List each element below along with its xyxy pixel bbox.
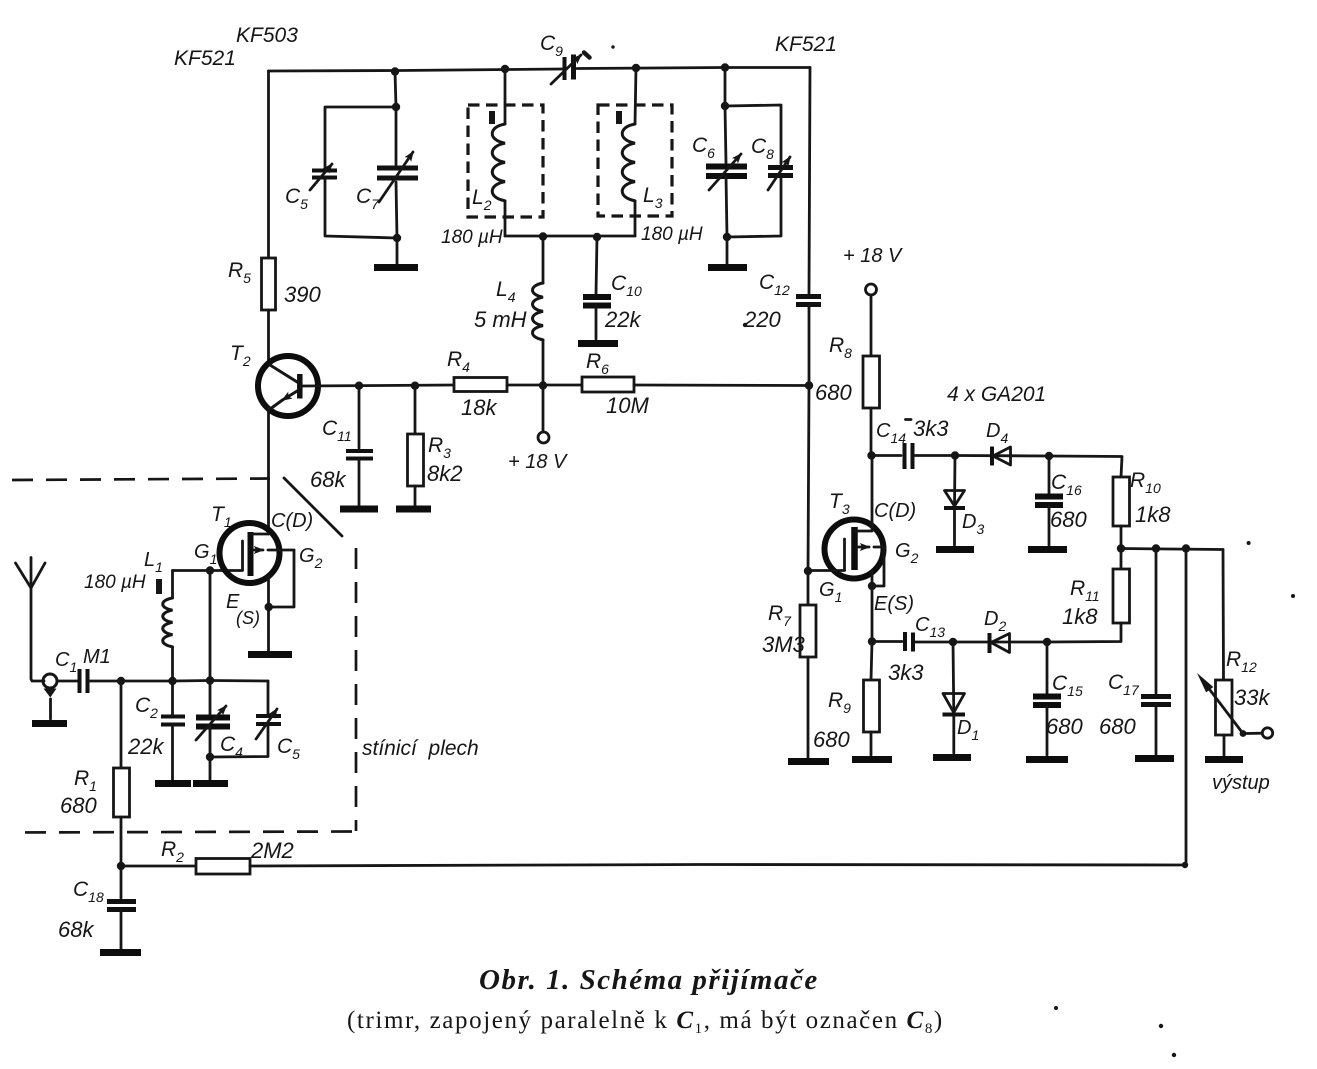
node junction main wire / right column — [805, 381, 813, 389]
svg-text:+ 18 V: + 18 V — [843, 245, 903, 267]
wire T1 G2 loop — [269, 550, 294, 607]
wire T3 source column — [871, 571, 874, 642]
capacitor C9 trimmer plates — [563, 57, 567, 80]
capacitor C8 plates — [768, 165, 793, 170]
inductor L2 core mark — [489, 111, 495, 124]
ink speck 4 — [1054, 1006, 1058, 1010]
resistor R4 — [454, 378, 507, 392]
wire top supply rail (left of C9) — [269, 69, 563, 71]
node junction T3 source / G2 — [868, 582, 876, 590]
svg-text:E(S): E(S) — [874, 593, 914, 615]
wire right column top (rail corner to C12) — [809, 68, 810, 295]
node junction top rail / C7 branch — [391, 67, 399, 75]
resistor R10 — [1113, 477, 1130, 526]
inductor L1 core mark — [156, 579, 162, 594]
ground below R7 — [788, 758, 829, 765]
svg-text:220: 220 — [743, 307, 781, 332]
svg-text:22k: 22k — [604, 307, 641, 332]
svg-text:3k3: 3k3 — [913, 416, 949, 441]
node junction R10/R11 — [1117, 544, 1125, 552]
terminal M1 input — [43, 674, 57, 688]
inductor L1 — [171, 571, 174, 599]
wire C7 branch upper — [395, 72, 396, 166]
wire C7 to ground — [396, 182, 397, 264]
resistor R7 — [807, 571, 810, 605]
wire T3 source arrow — [857, 546, 869, 549]
wire T1 gate lead — [173, 569, 243, 572]
wire R6 to right column — [634, 384, 809, 387]
svg-text:680: 680 — [1099, 714, 1136, 739]
node junction R1 / input — [117, 677, 125, 685]
svg-text:680: 680 — [1046, 714, 1083, 739]
node junction R1 / R2 / C18 — [117, 862, 125, 870]
wire bottom rail (R2 to feedback column) — [250, 865, 1186, 867]
resistor R6 — [582, 377, 634, 392]
inductor L2 shield dashed box — [468, 105, 543, 217]
wire T3 G2 loop — [872, 547, 884, 586]
wire feedback column (junction row to bottom rail) — [1185, 549, 1188, 866]
resistor R8 — [863, 356, 880, 408]
capacitor C15 — [1046, 642, 1049, 693]
wire T3 gate lead — [808, 569, 845, 572]
ground below T1 source — [248, 651, 292, 658]
transistor T3 — [825, 520, 884, 579]
svg-text:680: 680 — [1050, 507, 1087, 532]
node junction L4 / tank bottom — [539, 232, 547, 240]
svg-text:+ 18 V: + 18 V — [508, 451, 568, 473]
wire T2 emitter down to T1 drain — [267, 408, 270, 534]
svg-text:3k3: 3k3 — [888, 660, 924, 685]
capacitor C12 — [796, 294, 821, 299]
ground below C4 — [193, 780, 228, 787]
ground below C6 — [708, 264, 747, 271]
wire to +18V terminal (mid) — [542, 386, 545, 432]
capacitor C7 arrow — [379, 152, 413, 202]
capacitor C13 — [872, 640, 902, 643]
wire T1 source arrow — [253, 549, 263, 552]
resistor R9 — [871, 642, 872, 681]
svg-text:(S): (S) — [236, 608, 260, 628]
svg-text:KF521: KF521 — [775, 33, 837, 56]
capacitor C2 — [171, 681, 174, 714]
antenna — [30, 558, 33, 589]
node junction R3 — [411, 382, 419, 390]
node junction C6 bottom — [723, 233, 731, 241]
node junction feedback column — [1182, 544, 1190, 552]
resistor R1 — [120, 681, 123, 768]
inductor L3 — [635, 68, 636, 124]
svg-text:3M3: 3M3 — [762, 632, 806, 657]
node junction C4 branch — [206, 676, 214, 684]
potentiometer R12 wiper arrow — [1210, 690, 1243, 734]
inductor L3 shield dashed box — [598, 105, 672, 216]
svg-text:390: 390 — [284, 282, 321, 307]
ground below D1 — [933, 754, 971, 761]
ground below C15 — [1026, 756, 1068, 763]
wire T3 drain lead — [856, 456, 872, 532]
ground below C11 — [340, 506, 378, 513]
ground below C16 — [1028, 546, 1067, 553]
diode D4 — [955, 454, 1049, 457]
ink speck 5 — [1172, 1053, 1176, 1057]
node junction top rail / L2 — [501, 65, 509, 73]
ground below input terminal — [32, 720, 67, 727]
svg-text:180 µH: 180 µH — [441, 227, 503, 248]
ink speck 6 — [1247, 541, 1251, 545]
wire wiper to output terminal — [1246, 732, 1262, 735]
svg-text:68k: 68k — [310, 467, 346, 492]
ink speck 2 — [743, 323, 747, 327]
node junction C10 / tank bottom — [593, 233, 601, 241]
shield box corner diagonal — [284, 478, 342, 536]
wire R4 to R6 — [507, 384, 582, 387]
ground below C7 — [374, 264, 418, 271]
ground below D3 — [936, 546, 974, 553]
wire C5 branch lower — [325, 178, 397, 238]
svg-text:18k: 18k — [461, 395, 497, 420]
svg-text:680: 680 — [815, 380, 852, 405]
capacitor C5 trimmer plates (osc tank) — [312, 169, 337, 173]
node junction T3 source / C13 / R9 — [868, 637, 876, 645]
node junction L1 / C2 — [168, 677, 176, 685]
capacitor C1 — [57, 680, 78, 683]
ground below R9 — [852, 756, 892, 763]
capacitor C4 trimmer — [209, 681, 212, 715]
svg-text:výstup: výstup — [1212, 772, 1270, 794]
svg-text:8k2: 8k2 — [427, 461, 462, 486]
capacitor C14 — [872, 454, 902, 457]
capacitor C11 — [358, 386, 361, 448]
svg-text:C(D): C(D) — [271, 510, 313, 532]
wire T1 drain lead — [251, 533, 269, 536]
wire top supply rail (right of C9) — [577, 68, 810, 69]
node junction C7 branch / C5 subrail — [392, 103, 400, 111]
node junction C16 — [1045, 452, 1053, 460]
label 3k3 (C14) — [906, 418, 912, 421]
shield box bottom dashed line — [12, 832, 352, 833]
capacitor C4 arrow — [196, 706, 226, 740]
wire R5 to T2 collector — [267, 310, 270, 363]
svg-text:stínicí plech: stínicí plech — [362, 737, 479, 760]
wire +18V to R8 — [870, 295, 873, 356]
wire T2 collector column (top rail to R5) — [267, 71, 270, 258]
svg-text:180 µH: 180 µH — [84, 572, 146, 593]
wire T2 base lead — [301, 385, 454, 386]
wire C6 branch lower — [726, 176, 727, 264]
diode D1 — [952, 642, 956, 714]
capacitor C9 trimmer arrow — [551, 55, 581, 84]
capacitor C7 plates — [377, 166, 418, 171]
shield box top dashed line — [12, 479, 270, 481]
wire gate node down to input wire — [209, 571, 212, 681]
svg-text:1k8: 1k8 — [1135, 502, 1171, 527]
diode D2 — [953, 641, 1047, 644]
svg-text:4 x GA201: 4 x GA201 — [947, 383, 1046, 406]
shield box right dashed line — [355, 548, 358, 831]
wire output junction row — [1121, 549, 1223, 550]
svg-text:22k: 22k — [127, 734, 164, 759]
capacitor C6 arrow — [709, 154, 741, 190]
capacitor C18 — [120, 866, 123, 898]
svg-text:5 mH: 5 mH — [474, 307, 527, 332]
ink speck 7 — [1291, 594, 1295, 598]
ground below R3 — [396, 506, 431, 513]
ground below C10 — [578, 340, 618, 347]
resistor R5 — [262, 258, 276, 310]
wire C16 to R10 — [1049, 456, 1122, 477]
node junction D3 / D4 — [951, 451, 959, 459]
wire C8 branch lower — [727, 176, 781, 237]
svg-text:33k: 33k — [1234, 685, 1270, 710]
node junction C11 — [355, 382, 363, 390]
capacitor C17 — [1155, 549, 1158, 694]
node junction C6/C8 subrail — [721, 102, 729, 110]
wire C8 subrail top — [725, 105, 781, 164]
wire C6 branch upper — [725, 68, 726, 164]
capacitor C10 — [596, 237, 597, 294]
wire right column (main wire to T3 gate node) — [808, 386, 809, 572]
ground below R12 — [1205, 756, 1243, 763]
wire right column (C12 to main wire) — [808, 305, 811, 386]
svg-text:(trimr, zapojený paralelně k C: (trimr, zapojený paralelně k C1, má být … — [347, 1007, 944, 1037]
transistor T2 — [258, 356, 318, 416]
node junction L4 / +18V — [539, 381, 547, 389]
svg-text:KF503: KF503 — [236, 24, 298, 47]
resistor R3 — [414, 386, 417, 434]
node junction T3 gate / R7 — [804, 567, 812, 575]
diode D3 — [953, 456, 956, 508]
svg-text:180 µH: 180 µH — [641, 224, 703, 245]
capacitor C16 — [1048, 456, 1051, 493]
svg-text:Obr. 1. Schéma přijímače: Obr. 1. Schéma přijímače — [479, 964, 819, 996]
svg-text:68k: 68k — [58, 917, 94, 942]
capacitor C5 arrow (input) — [256, 709, 277, 739]
svg-text:680: 680 — [813, 727, 850, 752]
capacitor C5 trimmer (input) — [267, 681, 270, 714]
node junction top rail / L3 — [632, 64, 640, 72]
ground below C2 — [155, 780, 191, 787]
capacitor C8 arrow — [768, 157, 790, 190]
inductor L4 — [542, 237, 545, 284]
transistor T1 — [220, 523, 280, 583]
svg-text:2M2: 2M2 — [250, 838, 294, 863]
node junction T1 gate / C4 column — [206, 566, 214, 574]
terminal +18V (mid) — [538, 432, 549, 443]
node junction D1 / D2 — [949, 638, 957, 646]
node junction T3 drain / C14 — [867, 451, 875, 459]
svg-text:KF521: KF521 — [174, 47, 236, 70]
inductor L2 — [504, 69, 507, 124]
wire tank bottom rail (L2 to L3) — [505, 235, 635, 238]
node junction C15 — [1043, 638, 1051, 646]
ground below C18 — [100, 949, 141, 956]
ink speck 1 — [611, 45, 614, 48]
svg-text:M1: M1 — [83, 646, 111, 668]
node junction C17 top — [1152, 544, 1160, 552]
capacitor C6 plates — [706, 164, 747, 170]
wire input node to L1/C2 — [121, 680, 173, 683]
terminal vystup — [1262, 728, 1272, 738]
node junction C7 bottom — [393, 234, 401, 242]
ink speck 3 — [1159, 1024, 1163, 1028]
wire input node to C4 branch — [173, 679, 269, 682]
wire C5 subrail top — [325, 107, 396, 169]
resistor R11 — [1120, 549, 1123, 570]
svg-text:C(D): C(D) — [874, 500, 916, 522]
inductor L3 core mark — [616, 111, 622, 124]
node junction T1 source / G2 — [265, 603, 273, 611]
svg-text:680: 680 — [60, 793, 97, 818]
ground below C17 — [1135, 755, 1174, 762]
svg-text:10M: 10M — [606, 393, 649, 418]
node junction C4 / C5 bottoms — [206, 753, 214, 761]
resistor R2 — [121, 865, 196, 868]
potentiometer R12 — [1222, 550, 1225, 681]
wire T1 source column — [267, 577, 270, 651]
svg-text:1k8: 1k8 — [1062, 604, 1098, 629]
capacitor C5 trimmer arrow — [310, 164, 332, 190]
node junction top rail / C6-C8 tank — [721, 63, 729, 71]
terminal +18V (right) — [866, 284, 877, 295]
node corner bottom rail — [1182, 862, 1188, 868]
